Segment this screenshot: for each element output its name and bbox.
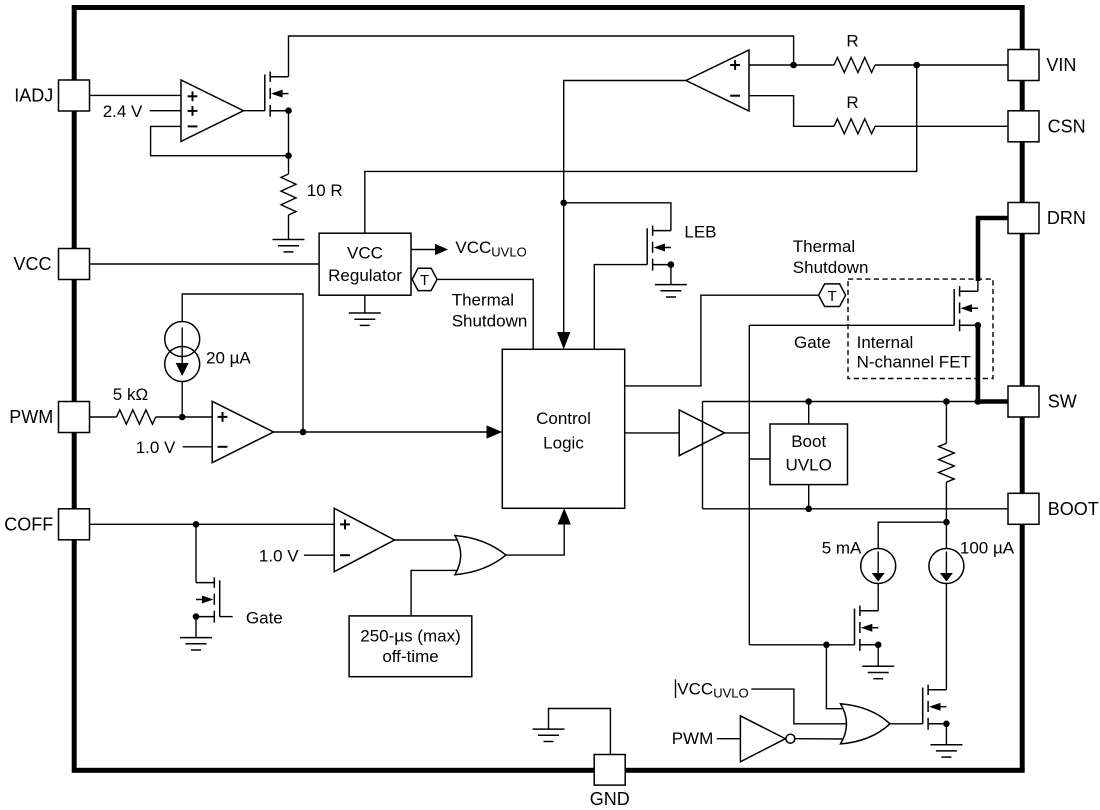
wire T1 to Control Logic top	[437, 279, 533, 349]
node 5 mA branch junction	[943, 519, 950, 526]
wire 1.0 V reference to U4 - input	[304, 554, 334, 556]
ground below Q5	[862, 666, 894, 678]
wire COFF pin to comparator U4 + input	[90, 523, 335, 525]
node PWM threshold junction	[179, 414, 186, 421]
svg-text:10 R: 10 R	[307, 181, 343, 200]
wire IADJ pin to op-amp U1 non-inverting input	[90, 94, 182, 96]
node COFF junction	[193, 521, 200, 528]
or-gate G1	[455, 536, 506, 575]
pin IADJ	[59, 80, 90, 111]
transistor Q1 (current-set P-FET)	[265, 72, 289, 117]
svg-text:DRN: DRN	[1047, 208, 1086, 228]
node Boot UVLO bottom junction	[805, 506, 812, 513]
svg-text:GND: GND	[590, 789, 630, 809]
node SW resistor top junction	[943, 398, 950, 405]
svg-text:R: R	[846, 32, 858, 51]
transistor Q3 (COFF discharge, mirrored)	[196, 577, 220, 622]
pin VIN	[1008, 50, 1039, 81]
wire U5 output to gate net	[725, 432, 750, 434]
block VCC Regulator	[319, 233, 411, 295]
wire Q5 source to ground	[877, 645, 879, 667]
comparator U4 (off-time)	[334, 508, 394, 571]
ground below Q6	[930, 745, 962, 757]
svg-text:Gate: Gate	[794, 333, 831, 352]
node U3 output junction	[300, 429, 307, 436]
wire VIN junction down and across to VCC Regulator input	[365, 65, 917, 233]
wire 1.0 V reference to U3 - input	[183, 446, 213, 448]
node U2 + input junction	[790, 62, 797, 69]
wire VCC pin to VCC Regulator	[90, 263, 320, 265]
svg-text:off-time: off-time	[382, 647, 438, 666]
wire thermal shutdown T2 to Control Logic	[625, 295, 819, 386]
block Boot UVLO	[770, 424, 848, 485]
node feedback junction	[285, 152, 292, 159]
net label not-VCCUVLO	[675, 679, 677, 698]
svg-text:IADJ: IADJ	[14, 86, 53, 106]
node U2 output / LEB drain junction	[560, 200, 567, 207]
wire bootstrap resistor to 100 uA node	[945, 482, 947, 548]
svg-text:Logic: Logic	[543, 434, 584, 453]
wire Q6 source to ground	[945, 724, 947, 745]
wire LEB drain from U2 output node	[564, 203, 671, 231]
svg-text:T: T	[420, 272, 429, 289]
wire Q3 gate lead	[220, 616, 233, 618]
wire U6 output to OR gate G2 bottom input	[795, 738, 846, 740]
current source 100 uA	[929, 549, 964, 584]
wire 20 uA source to PWM input node	[181, 382, 183, 418]
current source 5 mA	[861, 549, 896, 584]
svg-text:SW: SW	[1048, 392, 1077, 412]
resistor R (lower)	[834, 119, 875, 134]
svg-text:250-µs (max): 250-µs (max)	[360, 627, 460, 646]
wire U2 - input through resistor R to CSN	[749, 96, 834, 127]
transistor Q2 LEB	[647, 225, 671, 270]
svg-text:20 µA: 20 µA	[206, 348, 251, 367]
pin PWM	[59, 402, 90, 433]
wire U2 output to control logic	[564, 81, 686, 334]
pin BOOT	[1008, 493, 1039, 524]
resistor 5 kohm	[117, 410, 156, 424]
thermal shutdown sensor hexagon T1	[412, 268, 437, 290]
wire gate net to Boot UVLO left	[749, 458, 770, 460]
svg-text:Control: Control	[536, 409, 591, 428]
ground below 10 R	[273, 240, 305, 252]
node Q2 source junction	[668, 261, 675, 268]
node Q5 source junction	[875, 642, 882, 649]
wire Boot UVLO bottom to BOOT wire	[808, 485, 810, 509]
svg-text:T: T	[828, 288, 837, 305]
node Q1 source junction	[285, 107, 292, 114]
ground below LEB	[655, 285, 687, 297]
wire gate net to internal FET gate	[749, 324, 954, 326]
signal arrow VCC UVLO output	[411, 249, 436, 251]
wire 5 kohm to U3 + input	[156, 416, 213, 418]
pin DRN	[1008, 203, 1039, 234]
svg-text:Regulator: Regulator	[328, 266, 402, 285]
svg-text:1.0 V: 1.0 V	[136, 438, 176, 457]
svg-text:Thermal: Thermal	[452, 291, 514, 310]
wire VCCUVLO to OR gate G2 middle input	[751, 689, 848, 724]
wire Q1 source down to resistor 10 R	[288, 111, 290, 174]
wire BOOT pin horizontal	[703, 508, 1009, 510]
resistor bootstrap (SW to BOOT)	[939, 443, 955, 482]
node SW thick junction	[975, 398, 982, 405]
resistor 10 R	[281, 174, 296, 215]
svg-text:Gate: Gate	[246, 609, 283, 628]
ground below Q3	[180, 638, 212, 650]
arrow U2 output into Control Logic top	[557, 332, 570, 349]
svg-text:CSN: CSN	[1048, 116, 1086, 136]
svg-text:Shutdown: Shutdown	[793, 258, 869, 277]
svg-text:1.0 V: 1.0 V	[259, 547, 299, 566]
wire G1 output to Control Logic bottom	[506, 523, 564, 555]
ground below VCC Regulator	[349, 313, 381, 325]
svg-text:Internal: Internal	[857, 333, 914, 352]
svg-text:PWM: PWM	[9, 407, 53, 427]
wire U1 output to transistor Q1 gate	[244, 110, 265, 112]
wire U4 output to OR gate G1 top input	[395, 539, 461, 541]
transistor Q6 (SW pulldown)	[923, 685, 947, 730]
arrow into Control Logic left	[487, 425, 503, 438]
wire U1 feedback from Q1 source	[151, 126, 289, 155]
comparator U2 (current sense, points left)	[686, 50, 749, 111]
wire 10 R to ground	[288, 215, 290, 240]
svg-text:VCC: VCC	[347, 244, 383, 263]
svg-text:LEB: LEB	[684, 222, 716, 241]
svg-text:BOOT: BOOT	[1048, 499, 1099, 519]
svg-text:VIN: VIN	[1046, 55, 1076, 75]
svg-text:Shutdown: Shutdown	[452, 312, 528, 331]
node Q5 gate / OR input junction	[823, 642, 830, 649]
arrow into Control Logic bottom	[558, 508, 571, 524]
or-gate G2	[841, 704, 891, 744]
wire branch to 5 mA current source	[878, 522, 946, 548]
wire SW to Boot UVLO top	[808, 402, 810, 425]
wire Control Logic to buffer U5	[625, 432, 680, 434]
wire Q2 source to ground	[670, 265, 672, 285]
wire PWM label to inverter U6	[717, 738, 741, 740]
block Control Logic	[502, 349, 624, 508]
svg-text:Boot: Boot	[791, 432, 826, 451]
wire junction down to OR gate G2 top input	[826, 645, 845, 709]
svg-text:R: R	[846, 93, 858, 112]
wire Q3 source to ground	[195, 617, 197, 638]
svg-text:5 mA: 5 mA	[822, 539, 862, 558]
thermal shutdown sensor hexagon T2	[819, 284, 846, 307]
pin VCC	[59, 249, 90, 280]
thick wire SW node to SW pin	[976, 399, 1008, 404]
wire PWM pin to 5 kohm resistor	[90, 416, 117, 418]
buffer U5 (gate driver)	[679, 410, 724, 456]
dashed outline Internal N-channel FET	[848, 279, 993, 378]
thick wire DRN pin to Q4 drain	[978, 218, 1008, 281]
svg-text:UVLO: UVLO	[786, 456, 832, 475]
svg-text:COFF: COFF	[4, 514, 53, 534]
pin GND	[594, 755, 625, 786]
inverter U6	[740, 716, 785, 762]
wire gate net to Q5 gate	[749, 644, 854, 646]
wire Q2 gate to Control Logic top	[594, 265, 647, 350]
wire U2 + input through resistor R to VIN	[749, 64, 834, 66]
transistor Q4 internal power N-FET	[954, 286, 978, 331]
current source 20 uA (double circle)	[165, 322, 200, 382]
svg-text:Thermal: Thermal	[793, 237, 855, 256]
wire SW node down to BOOT wire	[702, 402, 704, 509]
pin COFF	[59, 509, 90, 540]
svg-text:PWM: PWM	[672, 729, 714, 748]
svg-text:N-channel FET: N-channel FET	[857, 353, 971, 372]
node VIN sense junction	[913, 62, 920, 69]
wire 100 uA source to Q6 drain	[945, 584, 947, 690]
wire gate net vertical	[748, 325, 750, 645]
wire 5 mA source to Q5 drain	[877, 584, 879, 611]
wire SW node to bootstrap resistor	[945, 402, 947, 444]
pin SW	[1008, 386, 1039, 417]
wire 2.4 V reference to U1 second + input	[150, 110, 181, 112]
wire GND pin to internal ground	[549, 709, 611, 755]
transistor Q5 (BOOT pulldown)	[855, 606, 879, 651]
block 250-us max off-time one-shot	[349, 616, 472, 677]
wire COFF node down to Q3 drain	[195, 524, 197, 582]
svg-text:100 µA: 100 µA	[960, 539, 1015, 558]
svg-text:2.4 V: 2.4 V	[103, 102, 143, 121]
ground symbol at GND pin	[533, 729, 565, 741]
resistor R (upper)	[834, 58, 875, 73]
pin CSN	[1008, 111, 1039, 142]
node Q6 source junction	[943, 721, 950, 728]
node Q4 source junction	[975, 322, 982, 329]
node Boot UVLO top junction	[805, 398, 812, 405]
wire VCC Regulator to ground	[364, 295, 366, 313]
svg-text:VCC: VCC	[13, 254, 51, 274]
wire Q1 drain up and across to comparator U2 + input	[289, 36, 794, 77]
wire U3 output to Control Logic left	[274, 431, 488, 433]
svg-text:5 kΩ: 5 kΩ	[113, 385, 148, 404]
node Q3 source junction	[193, 613, 200, 620]
wire SW node horizontal	[703, 401, 978, 403]
comparator U3 (PWM input)	[212, 401, 273, 462]
wire G2 output to Q6 gate	[890, 723, 923, 725]
wire 250-us one-shot to OR gate G1 bottom input	[411, 570, 461, 616]
op-amp U1 (IADJ error amplifier)	[181, 80, 244, 141]
thick wire Q4 source to SW node	[976, 325, 981, 401]
wire bias loop from U3 output to 20 uA source top	[182, 294, 303, 432]
